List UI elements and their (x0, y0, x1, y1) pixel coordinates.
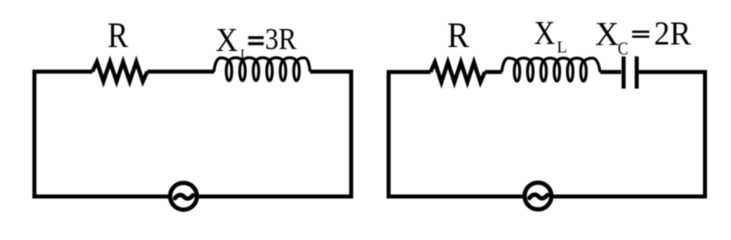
svg-text:R: R (108, 15, 129, 55)
svg-text:R: R (447, 15, 469, 55)
AC source circle (left circuit) (170, 183, 197, 210)
wire: left circuit top-left + left side + bottom-left (34, 72, 168, 197)
resistor R (left circuit) (92, 62, 147, 82)
svg-text:C: C (618, 38, 629, 58)
svg-text:2R: 2R (654, 15, 691, 52)
capacitor plate right (right circuit) (635, 56, 639, 88)
resistor R (right circuit) (431, 62, 485, 82)
equals sign of XC = 2R (right circuit) (632, 31, 649, 33)
equals sign of XL=3R (left circuit) (248, 36, 264, 39)
svg-text:3R: 3R (265, 21, 297, 56)
wire: inductor to capacitor (right circuit) (600, 70, 621, 74)
svg-text:L: L (240, 46, 248, 61)
svg-text:X: X (534, 15, 555, 52)
inductor XL=3R coil arcs (left circuit) (214, 58, 310, 81)
svg-text:L: L (557, 37, 567, 56)
wire: resistor to inductor (right circuit) (485, 70, 502, 74)
wire: right circuit bottom-right + right side + top-right (554, 72, 706, 197)
svg-text:X: X (216, 22, 238, 59)
wire: right circuit top-left + left side + bottom-left (389, 72, 523, 197)
svg-text:X: X (595, 16, 619, 53)
inductor XL=3R coil loops (left circuit) (226, 62, 232, 81)
inductor XL coil arcs (right circuit) (502, 58, 600, 81)
capacitor plate left (right circuit) (622, 56, 626, 88)
tilde inside left AC source (175, 195, 193, 199)
inductor XL coil loops (right circuit) (514, 62, 520, 81)
wire: left circuit top middle segment (147, 70, 214, 74)
tilde inside right AC source (530, 195, 548, 199)
wire: left circuit bottom-right + right side + top-right (199, 72, 351, 197)
AC source circle (right circuit) (525, 183, 552, 210)
